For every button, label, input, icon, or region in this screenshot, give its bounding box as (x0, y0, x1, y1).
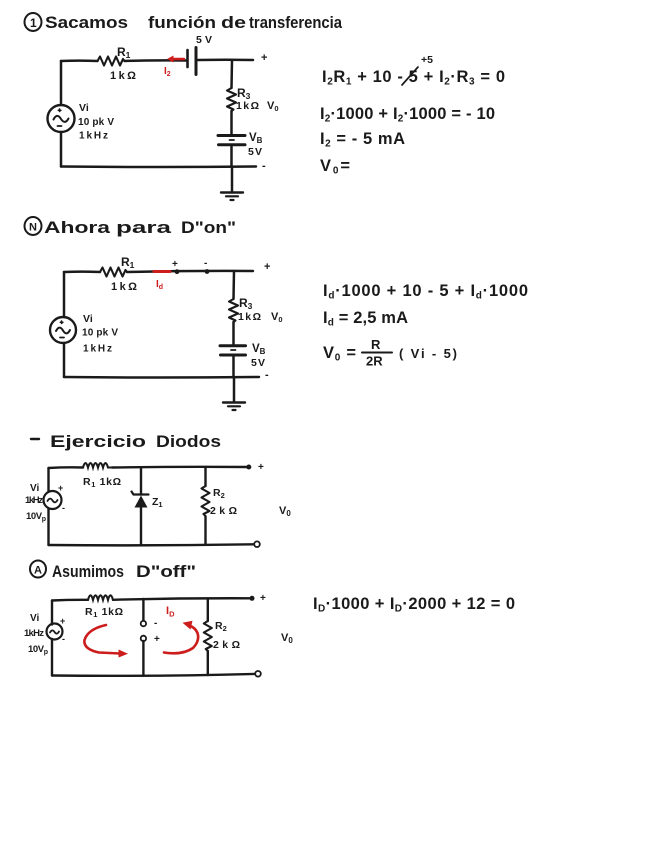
wire: C2 ground stem (233, 377, 236, 402)
svg-text:10 pk V: 10 pk V (78, 117, 114, 128)
svg-text:R: R (371, 337, 381, 352)
svg-text:1kΩ: 1kΩ (111, 281, 137, 293)
svg-text:-: - (154, 618, 157, 629)
heading 3 text: - Ejercicio Diodos (31, 433, 221, 451)
wire: C3 top right of resistor (112, 466, 248, 469)
equation: I2R1 + 10 - 5 + I2R3 = 0 (322, 54, 505, 88)
resistor R2 (C3) vertical zigzag (202, 486, 210, 516)
heading 4 circled letter (30, 561, 46, 578)
circuit 4 (24, 593, 293, 677)
svg-text:-: - (62, 634, 65, 644)
svg-text:+: + (58, 483, 63, 493)
svg-text:-: - (204, 258, 207, 269)
svg-text:2kΩ: 2kΩ (213, 639, 240, 651)
wire: C1 right vertical upper (230, 60, 233, 88)
heading 2 circled number (25, 217, 42, 235)
resistor R2 (C4) vertical zigzag (204, 621, 212, 651)
svg-text:+: + (258, 462, 264, 473)
svg-text:5V: 5V (196, 34, 212, 46)
node: C3 output top terminal (246, 465, 251, 470)
node: diode anode dot (C2) (175, 269, 180, 274)
svg-text:Id = 2,5 mA: Id = 2,5 mA (323, 309, 408, 329)
svg-text:1kHz: 1kHz (79, 131, 108, 142)
svg-text:transferencia: transferencia (249, 14, 343, 32)
label Vi 1kHz 10Vp (C3 source values) (25, 483, 46, 523)
wire: C3 right vertical lower (204, 517, 206, 545)
current loop arrow right (red, C4) (164, 621, 198, 654)
wire: C4 top right of resistor (113, 598, 251, 600)
circuit 1 (48, 34, 279, 200)
label + - (C4 source) (60, 616, 65, 644)
svg-text:1kΩ: 1kΩ (236, 100, 259, 112)
svg-text:N: N (29, 222, 37, 234)
wire: C3 right vertical upper (204, 467, 206, 486)
resistor R1 (C3) bump coil (83, 463, 112, 468)
svg-text:Vi: Vi (79, 102, 89, 114)
svg-text:Vi: Vi (83, 313, 93, 325)
svg-text:+: + (154, 634, 160, 645)
svg-text:5V: 5V (251, 357, 265, 369)
svg-text:-: - (262, 160, 266, 172)
node: diode cathode dot (C2) (205, 269, 210, 274)
wire: C4 bottom horizontal (52, 674, 255, 676)
label Vi 10pk V 1kHz (C1 source values) (78, 102, 114, 142)
svg-text:Sacamos: Sacamos (45, 14, 128, 32)
resistor R1 (C1) zigzag (98, 57, 125, 66)
wire: C4 middle vertical upper (142, 599, 144, 621)
svg-text:R1 1kΩ: R1 1kΩ (85, 606, 123, 619)
current arrow I2 (red, C1) (167, 56, 184, 63)
zener diode Z1 (C3) (132, 492, 149, 508)
current loop arrow left (red, C4) (84, 625, 128, 658)
wire: C4 right vertical upper (207, 599, 209, 622)
wire: C3 top left segment (49, 466, 84, 469)
wire: C3 middle vertical upper (140, 468, 142, 495)
svg-text:10 pk V: 10 pk V (82, 328, 118, 339)
svg-text:D"on": D"on" (181, 219, 236, 237)
svg-text:1kHz: 1kHz (83, 344, 112, 355)
label Vi 1kHz 10Vp (C4 source values) (24, 613, 48, 656)
svg-text:para: para (116, 219, 172, 237)
wire: C4 left vertical (51, 601, 53, 676)
wire: C4 right vertical lower (207, 651, 209, 675)
svg-text:-: - (62, 503, 65, 513)
svg-text:I2 = - 5 mA: I2 = - 5 mA (320, 130, 405, 150)
node: C3 output bottom terminal (open) (254, 541, 260, 547)
svg-text:+: + (264, 261, 270, 273)
node: diode terminal lower (open, C4) (141, 636, 146, 641)
wire: C1 right vertical lower (230, 146, 233, 167)
wire: C2 right vertical mid (232, 322, 235, 344)
label Vi 10pk V 1kHz (C2 source values) (82, 313, 118, 355)
wire: C3 middle vertical lower (140, 508, 142, 546)
svg-text:+5: +5 (421, 54, 433, 66)
equation: Vo = R/2R (Vi - 5) (323, 337, 457, 369)
wire: C1 top left segment (61, 59, 98, 62)
svg-text:1: 1 (30, 16, 37, 30)
svg-text:Asumimos: Asumimos (52, 563, 124, 581)
wire: C2 bottom horizontal (64, 376, 259, 379)
svg-text:Id·1000 + 10 - 5 + Id·1000: Id·1000 + 10 - 5 + Id·1000 (323, 282, 528, 302)
wire: C2 left vertical (63, 272, 66, 377)
ground (C2) (223, 403, 245, 411)
svg-text:+: + (172, 259, 178, 270)
svg-text:A: A (34, 565, 42, 577)
wire: C2 top right of resistor (127, 271, 253, 272)
svg-text:de: de (221, 14, 246, 32)
svg-text:ID·1000 + ID·2000 + 12 = 0: ID·1000 + ID·2000 + 12 = 0 (313, 595, 515, 615)
heading 4 text: Asumimos D "off" (52, 563, 196, 581)
circuit 2 (50, 255, 283, 410)
svg-text:función: función (148, 14, 216, 32)
wire: C4 top left segment (52, 599, 88, 602)
svg-text:+: + (260, 593, 266, 604)
resistor R3 (C2) vertical zigzag (229, 299, 238, 322)
wire: C1 top mid segment (125, 59, 188, 62)
wire: C1 bottom horizontal (61, 165, 256, 168)
svg-text:Ahora: Ahora (44, 219, 111, 237)
battery B1 5V (C1) (188, 48, 197, 75)
ground (C1) (221, 193, 243, 201)
node: diode terminal upper (open, C4) (141, 621, 146, 626)
battery VB (C2) (220, 346, 246, 355)
svg-text:5V: 5V (248, 146, 262, 158)
wire: C1 top right segment (198, 58, 253, 61)
wire: C3 left vertical (47, 468, 49, 545)
svg-text:Vi: Vi (30, 613, 39, 624)
svg-text:Ejercicio: Ejercicio (50, 433, 146, 451)
node: C4 output top terminal (250, 596, 255, 601)
wire: C2 right vertical upper (232, 271, 235, 299)
circuit 3 (25, 462, 291, 547)
svg-text:D"off": D"off" (136, 563, 196, 581)
ac source Vi (C2) (50, 317, 76, 343)
svg-text:+: + (60, 616, 65, 626)
heading 1 circled number (25, 13, 42, 31)
wire: C2 right vertical lower (232, 356, 235, 377)
svg-text:1kΩ: 1kΩ (238, 311, 261, 323)
svg-text:Vi: Vi (30, 483, 39, 494)
label + - (C3 source) (58, 483, 65, 513)
svg-text:1kHz: 1kHz (25, 495, 43, 506)
svg-text:Diodos: Diodos (156, 433, 221, 451)
svg-text:1kHz: 1kHz (24, 628, 44, 639)
ac source Vi (C4) (47, 624, 63, 640)
ac source Vi (C1) (48, 105, 75, 132)
svg-text:2kΩ: 2kΩ (210, 505, 237, 517)
svg-text:+: + (261, 52, 267, 64)
svg-text:2R: 2R (366, 354, 383, 369)
resistor R1 (C2) zigzag (100, 268, 127, 277)
wire: C1 right vertical mid (230, 111, 233, 134)
svg-text:( Vi - 5): ( Vi - 5) (399, 346, 457, 361)
svg-text:1kΩ: 1kΩ (110, 70, 136, 82)
current mark Id (red dash, C2) (154, 270, 170, 273)
wire: C2 top left segment (64, 270, 100, 273)
ac source Vi (C3) (44, 491, 62, 509)
wire: C1 ground stem (231, 167, 234, 193)
wire: C1 left vertical (60, 61, 63, 167)
svg-text:-: - (265, 369, 269, 381)
resistor R3 (C1) vertical zigzag (227, 88, 236, 111)
svg-text:R1 1kΩ: R1 1kΩ (83, 476, 121, 489)
wire: C3 bottom horizontal (49, 544, 255, 545)
node: C4 output bottom terminal (open) (255, 671, 261, 677)
battery VB (C1) (218, 136, 245, 145)
resistor R1 (C4) bump coil (88, 595, 113, 600)
wire: C4 middle vertical lower (142, 641, 144, 676)
heading 2 text: Ahora para D "on" (44, 219, 236, 237)
heading 1 text: Sacamos funcion de transferencia (45, 14, 343, 32)
svg-text:I2·1000 + I2·1000 = - 10: I2·1000 + I2·1000 = - 10 (320, 105, 495, 125)
